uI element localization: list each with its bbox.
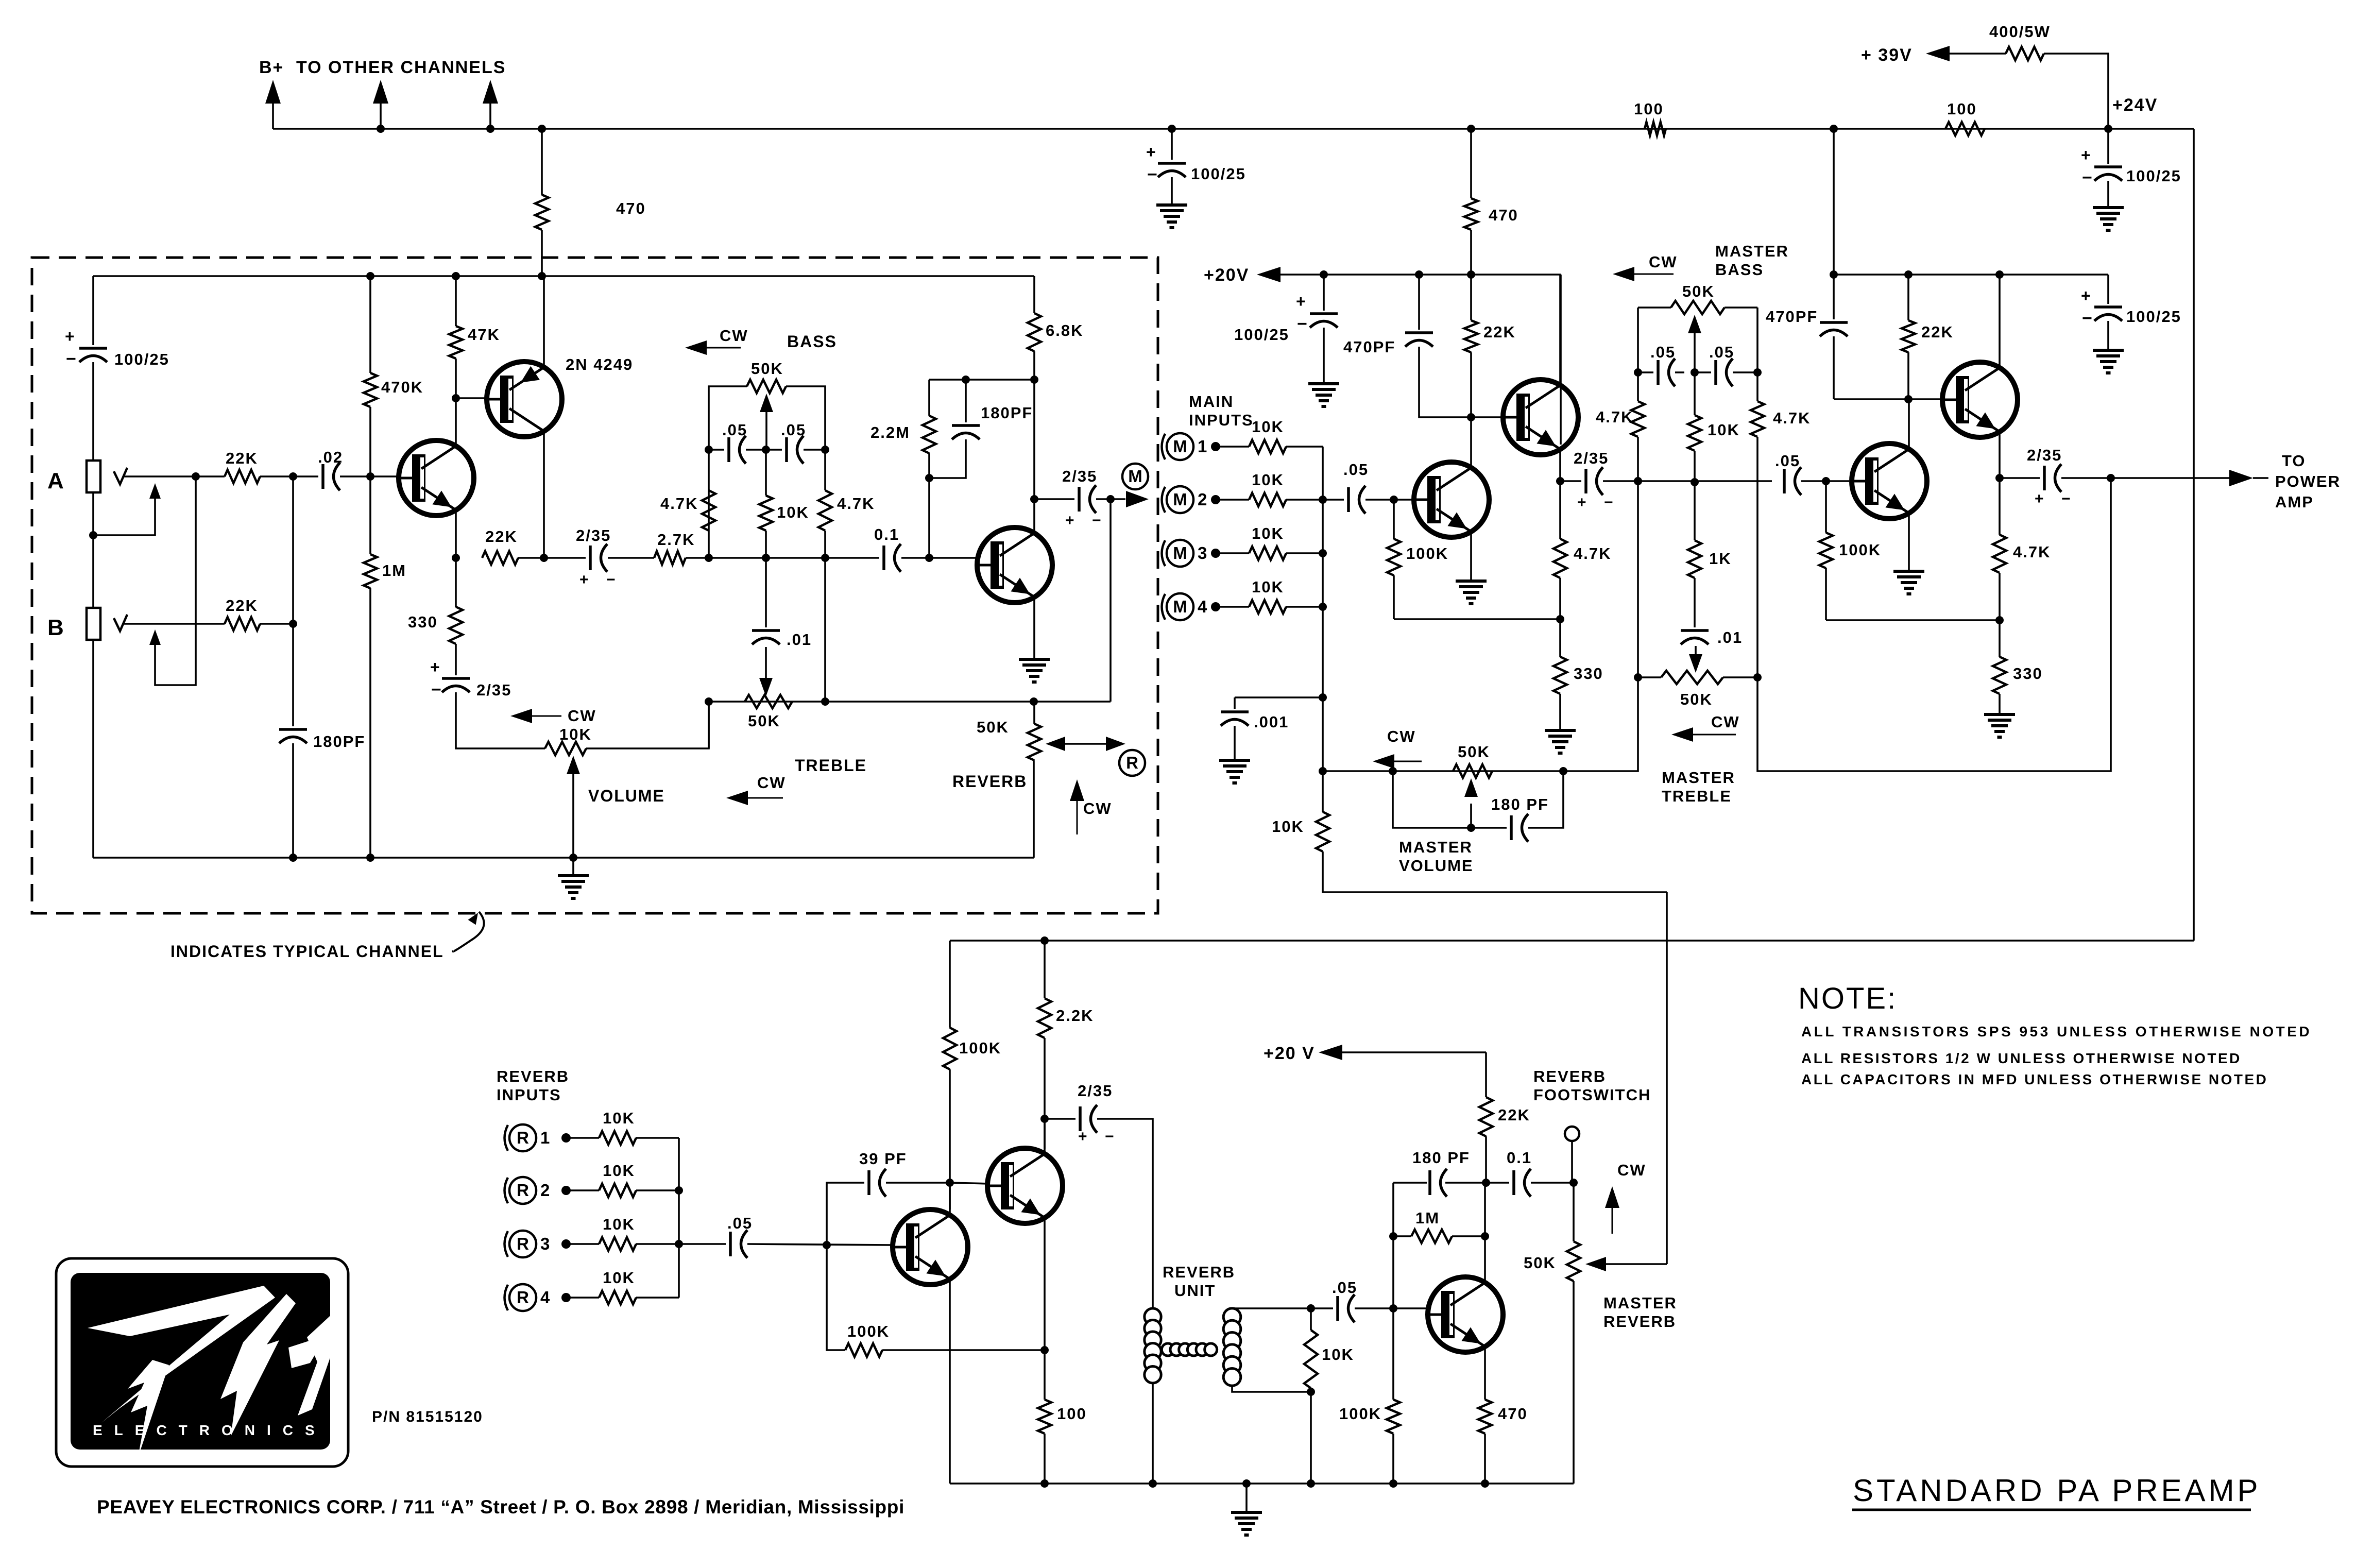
transistor Q7 [1942, 362, 2018, 437]
wire 47K to Q2 base [455, 359, 457, 398]
wire out to 2/35 second [2000, 477, 2040, 479]
junction node A [1634, 477, 1642, 485]
svg-text:−: − [66, 349, 77, 369]
arrow +20V mixer [1257, 267, 1324, 282]
svg-text:−: − [2082, 309, 2093, 328]
wire caps mid [1675, 371, 1684, 373]
svg-text:R: R [517, 1181, 529, 1200]
resistor 100 bus right [1945, 100, 1985, 135]
svg-text:+: + [1577, 494, 1587, 511]
svg-text:TO: TO [2282, 452, 2306, 470]
ground mixer 100/25 [1308, 384, 1339, 406]
wire reverb bus [678, 1138, 680, 1298]
wire rail cap to ground [2107, 321, 2109, 350]
svg-text:.01: .01 [1717, 628, 1743, 646]
capacitor 39PF [859, 1150, 907, 1197]
junction B+ 470 channel [538, 125, 546, 133]
junction rail Q9e [1040, 1479, 1049, 1488]
svg-text:.05: .05 [722, 421, 747, 439]
junction Q8 base node [823, 1241, 831, 1249]
wire main mix bus [1322, 447, 1324, 771]
transistor Q10 [1428, 1277, 1503, 1352]
svg-text:2/35: 2/35 [1078, 1082, 1113, 1100]
wire mv loop [1393, 771, 1507, 828]
wire M4 [1216, 606, 1249, 608]
resistor 1K [1688, 540, 1732, 578]
junction bottom 1M [366, 854, 374, 862]
junction rail 100K bias [1389, 1479, 1397, 1488]
wire mv loop right [1528, 771, 1563, 828]
label MASTER TREBLE 1 [1662, 769, 1735, 787]
junction bottom 180PF [289, 854, 297, 862]
wire R4 [566, 1297, 599, 1299]
wire 470PF to Q5 base [1419, 347, 1471, 417]
resistor 100 reverb [1038, 1400, 1087, 1434]
svg-text:+: + [2035, 490, 2045, 507]
junction bus .001 [1319, 693, 1327, 702]
wire mixer cap gnd [1323, 328, 1325, 384]
wire Q2 collector [543, 431, 545, 558]
wire 2.2M top [928, 380, 930, 416]
capacitor 2/35 emitter [430, 658, 511, 700]
svg-text:4: 4 [540, 1288, 550, 1307]
svg-text:+20 V: +20 V [1264, 1044, 1315, 1063]
wire Q8 collector [949, 1183, 951, 1215]
capacitor 2/35 reverb [1078, 1082, 1115, 1145]
wire +20 rail [1324, 274, 1561, 276]
svg-text:50K: 50K [751, 360, 783, 378]
wire bass pot left [1638, 306, 1671, 309]
wire 10K return path [1323, 851, 1667, 892]
wire tone left leg [708, 490, 710, 558]
wire Q5 collector [1559, 275, 1561, 385]
svg-text:470K: 470K [381, 378, 423, 396]
svg-text:MASTER: MASTER [1603, 1294, 1677, 1312]
svg-text:10K: 10K [603, 1109, 635, 1127]
svg-text:ALL TRANSISTORS SPS 953 U: ALL TRANSISTORS SPS 953 UNLESS OTHERWISE… [1801, 1024, 2312, 1039]
capacitor .01 master [1681, 628, 1743, 646]
potentiometer MASTER BASS 50K [1671, 282, 1725, 314]
wire 470PF2 to node [1833, 336, 1835, 399]
resistor 400/5W [1989, 23, 2051, 60]
wire 100K rv drop [949, 941, 951, 1028]
svg-text:.05: .05 [1332, 1279, 1357, 1297]
svg-text:FOOTSWITCH: FOOTSWITCH [1533, 1086, 1651, 1104]
junction out node [1106, 495, 1115, 503]
arrow to main [1111, 491, 1149, 507]
svg-text:+20V: +20V [1204, 265, 1249, 285]
wire 4.7K mr top [1756, 372, 1759, 401]
resistor 10K R3 [599, 1215, 636, 1251]
junction 10K bottom [1307, 1388, 1315, 1396]
junction bass right cap [1753, 368, 1762, 377]
resistor 1M reverb [1411, 1209, 1452, 1243]
resistor 10K R4 [599, 1269, 636, 1304]
wire 22K mixer top [1470, 275, 1472, 320]
label 4.7K master left [1596, 408, 1633, 426]
wire 10K load bottom [1310, 1392, 1312, 1484]
wire 10K M3 to bus [1286, 552, 1323, 554]
svg-text:STANDARD PA PREAMP: STANDARD PA PREAMP [1853, 1473, 2261, 1508]
wire 180PF to bottom [292, 743, 294, 858]
wire feedback wire mixer [1394, 618, 1560, 620]
svg-text:4.7K: 4.7K [1596, 408, 1633, 426]
wire 2.2K top [1044, 941, 1046, 998]
junction mv right [1559, 767, 1567, 775]
wire channel rail [93, 275, 1034, 277]
wire 10K M2 to bus [1286, 499, 1323, 501]
svg-text:1K: 1K [1709, 550, 1732, 568]
jack M2 [1162, 486, 1207, 513]
wire 10K mid up [765, 450, 767, 496]
wire 2/35 to volume [456, 692, 545, 748]
wire A jack to B jack [92, 492, 94, 608]
resistor 10K return [1272, 812, 1329, 851]
wire caps left [1638, 371, 1653, 373]
svg-text:+ 39V: + 39V [1861, 45, 1913, 65]
svg-text:.05: .05 [1775, 452, 1800, 470]
wire node to .02 [293, 475, 318, 478]
wire rbus to .05 [679, 1243, 726, 1245]
logo PEAVEY ELECTRONICS [56, 1258, 348, 1467]
wire Q4 emitter [1470, 533, 1472, 581]
svg-text:−: − [606, 571, 617, 588]
svg-text:22K: 22K [226, 596, 258, 615]
cw master reverb [1605, 1161, 1646, 1234]
jack B [87, 608, 100, 640]
junction treble reverb [1030, 697, 1038, 706]
junction rail 47K [452, 272, 460, 280]
wire 100K mixer top [1393, 500, 1395, 539]
note transistors [1801, 1024, 2312, 1039]
svg-text:CW: CW [1083, 799, 1112, 817]
svg-text:180 PF: 180 PF [1412, 1149, 1470, 1167]
capacitor .05 reverb in [727, 1214, 753, 1258]
wire Q3 emitter [1033, 597, 1035, 659]
transistor Q6 [1852, 444, 1927, 519]
svg-text:.05: .05 [727, 1214, 753, 1232]
wire Q9 collector [1044, 1119, 1046, 1154]
junction Q1 base 470K [366, 472, 374, 481]
wire 10K mid down [765, 531, 767, 558]
svg-text:1M: 1M [382, 561, 406, 580]
wire 1M to bottom [369, 588, 371, 858]
wire 6.8K to Q3 node [1033, 351, 1035, 499]
junction treble left [1634, 673, 1642, 681]
svg-text:100K: 100K [847, 1322, 890, 1340]
resistor 4.7K tone left [702, 490, 715, 531]
terminal R4 [561, 1293, 571, 1302]
wire cap row left [709, 449, 724, 451]
label +39V [1861, 45, 1913, 65]
svg-text:180PF: 180PF [313, 732, 365, 751]
svg-text:TREBLE: TREBLE [1662, 787, 1732, 805]
capacitor 2/35 channel out [1062, 467, 1102, 529]
wire bass left leg [709, 386, 747, 450]
wire B+ to 470 [541, 129, 543, 195]
wire .001 wire [1235, 696, 1323, 698]
jack M1 [1162, 433, 1207, 460]
wire channel bottom rail [93, 857, 1034, 859]
svg-text:CW: CW [568, 707, 596, 725]
junction Q3 collector wire [1030, 376, 1038, 384]
wire A switch to shield [93, 499, 155, 535]
wire 400/5W to +24V [2044, 54, 2108, 129]
wire pickup to .05 [1311, 1307, 1333, 1309]
capacitor .05 master left [1650, 343, 1676, 386]
resistor 10K reverb load [1304, 1330, 1354, 1388]
junction B+ +24 drop [1830, 125, 1838, 133]
label MASTER VOLUME 2 [1399, 857, 1474, 875]
wire 470 mixer to +20 rail [1470, 230, 1472, 275]
cw bass [685, 327, 748, 355]
wire 100 to rail [1044, 1434, 1046, 1484]
svg-text:.05: .05 [781, 421, 806, 439]
capacitor 2/35 mixer [1574, 449, 1614, 511]
junction cap row mid [762, 446, 770, 454]
svg-text:BASS: BASS [787, 332, 837, 351]
svg-text:3: 3 [1198, 543, 1207, 563]
wire 470 to rail [1484, 1434, 1486, 1484]
wire treble left stub [1638, 676, 1661, 678]
svg-text:2.2K: 2.2K [1056, 1007, 1094, 1025]
svg-text:100K: 100K [959, 1039, 1001, 1057]
wire rail to 47K [455, 276, 457, 326]
junction treble right [821, 697, 829, 706]
wire bottom rail to reverb pot [1033, 760, 1035, 858]
wire 100K mixer bottom [1393, 575, 1395, 619]
svg-text:B+: B+ [259, 58, 284, 77]
svg-text:.05: .05 [1343, 461, 1369, 479]
svg-text:ALL RESISTORS 1/2 W UNLES: ALL RESISTORS 1/2 W UNLESS OTHERWISE NOT… [1801, 1050, 2242, 1066]
svg-text:6.8K: 6.8K [1046, 321, 1083, 339]
wire bus cap stub [1171, 129, 1173, 160]
junction tone mid [762, 554, 770, 562]
wire 1K top [1694, 482, 1696, 540]
wiper reverb [1046, 737, 1125, 751]
wire 470K to base node [369, 407, 371, 476]
svg-text:CW: CW [1711, 713, 1740, 731]
svg-text:330: 330 [2013, 664, 2043, 683]
terminal M4 [1211, 602, 1220, 611]
wire M2 [1216, 499, 1249, 501]
svg-text:BASS: BASS [1715, 261, 1764, 279]
svg-text:1M: 1M [1415, 1209, 1440, 1227]
wire +24 cap to ground [2107, 181, 2109, 208]
resistor 10K M2 [1249, 471, 1286, 506]
wire node to 0.1 [1486, 1182, 1509, 1184]
wire Q7 emitter [1999, 432, 2001, 478]
svg-text:470PF: 470PF [1343, 338, 1395, 356]
wire base node to 1M [369, 476, 371, 554]
junction bus M4 [1319, 603, 1327, 611]
resistor 1M [364, 554, 406, 588]
wire +24 rail [1834, 274, 2108, 276]
junction rail 470K [366, 272, 374, 280]
label REVERB [952, 772, 1027, 791]
wire collector node wire right [1445, 1182, 1486, 1184]
wire Q9 base [950, 1183, 989, 1184]
svg-text:100/25: 100/25 [1191, 165, 1246, 183]
ground Q4 [1456, 581, 1487, 604]
resistor 2.2K [1038, 998, 1094, 1038]
junction B+ 470 mixer [1467, 125, 1475, 133]
junction Q5 base [1467, 413, 1475, 421]
transistor Q9 [987, 1148, 1063, 1223]
svg-text:2N 4249: 2N 4249 [566, 355, 633, 373]
svg-text:2/35: 2/35 [576, 526, 611, 544]
jack R3 [505, 1231, 550, 1257]
wire Q5e to 2/35 [1560, 480, 1581, 482]
junction A normalling [192, 472, 200, 481]
junction treble right [1753, 673, 1762, 681]
jack R1 [505, 1124, 550, 1151]
svg-text:+24V: +24V [2112, 95, 2158, 115]
resistor 22K second [1902, 320, 1954, 352]
label TO POWER AMP 2 [2275, 472, 2341, 490]
svg-text:INPUTS: INPUTS [1189, 411, 1254, 429]
note resistors [1801, 1050, 2242, 1066]
svg-text:VOLUME: VOLUME [1399, 857, 1474, 875]
svg-text:+: + [2081, 146, 2092, 164]
junction rail 10K load [1307, 1479, 1315, 1488]
wire node A to treble left [1637, 481, 1639, 677]
wire pickup bottom [1232, 1386, 1311, 1392]
terminal M1 [1211, 442, 1220, 451]
junction Q7 emitter [1995, 474, 2004, 482]
wire 4.7K to 330 [1559, 578, 1561, 657]
wire cap row mid [746, 449, 782, 451]
svg-text:22K: 22K [1921, 323, 1954, 341]
capacitor .05 to Q6 [1775, 452, 1801, 495]
svg-text:0.1: 0.1 [1507, 1149, 1532, 1167]
resistor 100 bus left [1634, 100, 1666, 135]
wire out to 2/35 [1034, 498, 1074, 500]
wire mix bus to .05 [1323, 499, 1344, 501]
svg-text:.01: .01 [787, 630, 812, 649]
svg-text:REVERB: REVERB [1533, 1067, 1606, 1085]
svg-text:4.7K: 4.7K [660, 495, 698, 513]
wire treble row [708, 702, 710, 748]
wire input A [124, 475, 196, 478]
wire 100K bias to rail [1392, 1434, 1394, 1484]
transistor Q5 [1503, 380, 1578, 455]
wire Q1 collector [455, 398, 457, 446]
wire 2.7K to tone [686, 557, 709, 559]
wire bass right leg [1756, 308, 1759, 372]
svg-text:INDICATES TYPICAL CHANNEL: INDICATES TYPICAL CHANNEL [170, 942, 444, 961]
label REVERB UNIT 1 [1163, 1263, 1235, 1281]
svg-text:+: + [65, 327, 76, 346]
wire 2.2K to Q9 collector [1044, 1038, 1046, 1149]
junction rail 470 [1481, 1479, 1489, 1488]
svg-text:47K: 47K [468, 326, 500, 344]
label BASS [787, 332, 837, 351]
junction Q6 collector [1904, 395, 1913, 403]
svg-text:VOLUME: VOLUME [588, 787, 665, 805]
capacitor 470PF second [1766, 308, 1848, 336]
resistor 100K reverb driver [943, 1028, 1001, 1069]
capacitor .001 [1221, 712, 1289, 731]
label MASTER BASS 2 [1715, 261, 1764, 279]
wire bottom ground stub [572, 858, 574, 876]
wire .05 to Q10 base [1355, 1307, 1428, 1309]
svg-text:470: 470 [1498, 1405, 1528, 1423]
wire 4.7K ml top [1637, 372, 1639, 401]
inductor reverb drive coil [1145, 1308, 1161, 1383]
label +20V reverb [1264, 1044, 1315, 1063]
junction Q5 emitter [1556, 477, 1564, 485]
capacitor 470PF mixer [1343, 333, 1433, 356]
wire Q5 base [1471, 416, 1503, 418]
wire 470PF stub [1418, 275, 1420, 330]
wire .001 to ground [1234, 726, 1236, 760]
cw master volume [1373, 727, 1422, 769]
junction 1M left [1389, 1232, 1397, 1240]
svg-text:M: M [1173, 543, 1187, 563]
svg-text:A: A [47, 468, 65, 493]
wire 470PF2 stub [1833, 275, 1835, 319]
wire Q7e to 4.7K [1999, 478, 2001, 535]
svg-text:−: − [431, 680, 442, 700]
svg-text:P/N 81515120: P/N 81515120 [372, 1408, 483, 1425]
svg-text:50K: 50K [977, 718, 1009, 736]
resistor 22K input B [225, 596, 260, 630]
junction feedback mixer [1556, 615, 1564, 623]
capacitor 180PF master volume [1491, 795, 1549, 842]
wire 2.2M bottom [928, 453, 930, 478]
capacitor .05 reverb out [1332, 1279, 1357, 1322]
wiper master treble [1689, 646, 1702, 673]
svg-text:+: + [1146, 143, 1157, 161]
wire collector node wire left [1393, 1182, 1427, 1184]
resistor 470 mixer [1464, 198, 1518, 230]
resistor 100K mixer [1387, 539, 1448, 575]
arrow indicates typical channel [453, 912, 484, 951]
resistor 2.2M [870, 416, 936, 453]
wire .05 to Q4 base [1365, 499, 1414, 501]
jack R2 [505, 1177, 550, 1204]
wire Q3 collector [1033, 499, 1035, 533]
wire 180PF column [292, 476, 294, 726]
label REVERB INPUTS 1 [497, 1067, 569, 1085]
capacitor 100/25 mixer [1234, 292, 1338, 344]
wire tone mid to 0.1 [766, 557, 879, 559]
resistor 10K tone mid [759, 496, 809, 531]
svg-text:10K: 10K [603, 1269, 635, 1287]
svg-text:10K: 10K [777, 503, 809, 521]
jack M3 [1162, 540, 1207, 567]
junction rail 470PF2 [1830, 270, 1838, 279]
cw treble [726, 774, 786, 805]
resistor 4.7K tone right [818, 490, 832, 531]
label MASTER REVERB 2 [1603, 1313, 1676, 1331]
wire 0.1 to Q3 base [901, 557, 978, 559]
wire out to treble wire [1109, 499, 1112, 702]
wire M3 [1216, 552, 1249, 554]
wire treble wire [709, 701, 1111, 703]
capacitor 0.1 reverb [1507, 1149, 1532, 1197]
wire cap row right [804, 449, 825, 451]
junction 39PF collector [946, 1179, 954, 1187]
svg-text:100: 100 [1634, 100, 1664, 118]
junction rbus R2 [675, 1186, 683, 1195]
svg-text:10K: 10K [1252, 418, 1284, 436]
wire .02 to Q1 base [340, 475, 400, 478]
capacitor .05 mixer [1343, 461, 1369, 514]
svg-text:POWER: POWER [2275, 472, 2341, 490]
svg-text:M: M [1173, 597, 1187, 616]
